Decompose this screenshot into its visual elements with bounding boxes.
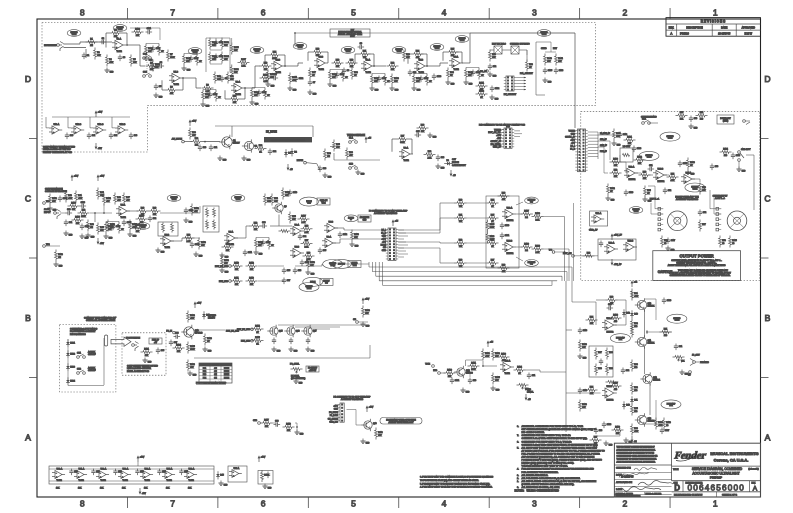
svg-text:AF_MUTE: AF_MUTE	[172, 137, 183, 140]
ground buffer	[220, 481, 222, 484]
svg-text:R159: R159	[310, 262, 315, 264]
fender logo	[673, 451, 708, 462]
svg-text:COMPONENTS WITHIN DOTTED: COMPONENTS WITHIN DOTTED	[43, 147, 75, 149]
svg-text:FS_CTRL: FS_CTRL	[290, 364, 300, 366]
svg-text:PCB ASSEMBLY FOR DIMENSIONS.: PCB ASSEMBLY FOR DIMENSIONS.	[522, 471, 559, 474]
wire U4-B fb	[408, 53, 412, 55]
svg-text:R21: R21	[363, 51, 366, 53]
svg-text:U1-B: U1-B	[174, 72, 179, 74]
op-amp U8-A	[293, 226, 301, 235]
capacitor C6	[221, 76, 223, 79]
ground U6-B	[157, 248, 159, 251]
resistor R66	[487, 242, 490, 244]
resistor R45	[97, 223, 99, 226]
capacitor C121	[451, 378, 453, 381]
switch SW1	[77, 356, 80, 359]
svg-text:R86: R86	[634, 364, 637, 366]
svg-text:6: 6	[261, 8, 266, 18]
capacitor C8	[343, 68, 345, 71]
svg-text:R167: R167	[613, 383, 618, 385]
svg-text:R195: R195	[490, 224, 495, 226]
oval shielded 9	[455, 36, 469, 43]
op-amp U10-D display buffer	[118, 126, 125, 134]
svg-text:R41: R41	[78, 195, 81, 197]
svg-text:U10-A: U10-A	[54, 123, 60, 126]
oval shielded trace 2	[113, 25, 127, 32]
svg-text:LED4: LED4	[70, 381, 75, 383]
svg-text:TRANSMITTED TO OTHERS WITHOUT: TRANSMITTED TO OTHERS WITHOUT AUTHORIZ-	[617, 457, 658, 460]
svg-text:D15: D15	[220, 475, 223, 477]
svg-text:R25: R25	[451, 49, 454, 51]
op-amp U3-A	[402, 149, 410, 158]
svg-text:R112: R112	[249, 263, 253, 265]
svg-text:R63: R63	[459, 260, 462, 262]
capacitor C95 buffer	[181, 469, 183, 472]
oval shielded 7	[392, 47, 406, 54]
svg-text:C106: C106	[559, 70, 563, 72]
svg-text:TL072: TL072	[319, 69, 324, 71]
net stub bus	[356, 321, 359, 324]
svg-text:R65: R65	[491, 215, 494, 217]
capacitor C22	[269, 149, 271, 152]
svg-text:TL072: TL072	[505, 373, 510, 375]
svg-text:U9-B: U9-B	[295, 247, 300, 249]
resistor R49	[149, 210, 152, 212]
power +15V display rail	[95, 113, 97, 117]
svg-text:R5: R5	[133, 59, 135, 61]
resistor R24 fb	[412, 53, 415, 55]
svg-text:LINE LOCATED ON REAR: LINE LOCATED ON REAR	[127, 367, 152, 370]
svg-text:PA_R: PA_R	[381, 231, 386, 234]
resistor R38	[417, 127, 420, 129]
resistor R155	[282, 188, 284, 191]
connector P3	[388, 228, 396, 260]
capacitor C32	[149, 216, 151, 219]
table mute states	[199, 363, 232, 383]
svg-text:CONDITIONS FOR TESTPOINTS TP13: CONDITIONS FOR TESTPOINTS TP13, TP15-16:	[522, 435, 572, 437]
op-amp U10-A display buffer	[52, 126, 59, 134]
resistor R144	[555, 54, 557, 57]
wire spk feed	[655, 208, 663, 210]
resistor R160	[55, 250, 57, 253]
resistor R78	[661, 236, 663, 239]
capacitor C102	[295, 76, 297, 79]
svg-text:R79: R79	[722, 240, 725, 242]
svg-text:C102: C102	[299, 78, 303, 80]
oval phase	[303, 277, 323, 286]
resistor R71	[696, 115, 699, 117]
capacitor C87	[170, 340, 172, 343]
svg-text:220K: 220K	[490, 227, 495, 229]
svg-text:C7: C7	[313, 82, 315, 84]
svg-text:7: 7	[170, 8, 175, 18]
svg-text:U37-A: U37-A	[234, 467, 240, 470]
svg-text:R40: R40	[68, 195, 71, 197]
oval shielded c1	[167, 195, 181, 202]
svg-text:R73: R73	[643, 172, 646, 174]
oval balanced out 1	[525, 197, 539, 204]
diode D11	[631, 396, 633, 399]
capacitor C60 fb	[607, 307, 610, 309]
resistor network box U6	[158, 222, 178, 236]
svg-text:U3-A: U3-A	[404, 147, 409, 150]
resistor R65	[487, 217, 490, 219]
svg-text:R173: R173	[71, 203, 76, 205]
svg-text:Q18: Q18	[373, 423, 377, 425]
svg-text:TITLE: TITLE	[673, 469, 679, 471]
rect label cold ch	[317, 198, 330, 205]
diode D15	[217, 471, 219, 474]
svg-text:ALL TESTPOINT VOLTAGES READ TO: ALL TESTPOINT VOLTAGES READ TO GROUND WI…	[522, 446, 598, 449]
svg-text:SCHEMATIC: 2-BUTTON DG: SCHEMATIC: 2-BUTTON DG	[70, 328, 98, 331]
capacitor C5	[155, 84, 157, 87]
net label tp2	[43, 245, 46, 248]
capacitor C35	[319, 248, 321, 251]
svg-text:R30: R30	[192, 132, 195, 134]
svg-text:R26: R26	[450, 72, 453, 74]
svg-text:R72: R72	[614, 170, 617, 172]
wire U5-A fb	[443, 51, 447, 53]
svg-text:2: 2	[622, 499, 627, 509]
resistor R176	[107, 220, 109, 223]
ground f7	[221, 268, 223, 271]
resistor R104	[514, 369, 517, 371]
wire U26-A out	[516, 213, 522, 215]
ground turbo fb	[429, 133, 431, 136]
svg-text:1: 1	[713, 8, 718, 18]
svg-text:R58: R58	[307, 253, 310, 255]
resistor R75	[644, 186, 646, 189]
balanced cluster frame	[486, 196, 519, 268]
svg-text:R42: R42	[82, 210, 85, 212]
rounded label main	[380, 418, 422, 425]
op-amp U26-B	[505, 242, 513, 251]
svg-text:TUNER: TUNER	[568, 131, 575, 133]
wire P4 runs	[598, 134, 614, 136]
wire pwr bottom	[596, 435, 620, 437]
power -15V display rail	[95, 143, 97, 147]
resistor R197	[521, 213, 524, 215]
svg-text:+24: +24	[634, 282, 637, 284]
svg-text:R76: R76	[702, 187, 705, 189]
svg-text:R115: R115	[255, 337, 259, 339]
wire P4 fan right	[588, 131, 598, 133]
fet Q17	[304, 327, 312, 335]
wire J1 to U1	[64, 43, 81, 45]
resistor R54	[271, 194, 273, 197]
svg-text:150: 150	[634, 326, 637, 328]
svg-text:ENGR: C. MILLER: ENGR: C. MILLER	[646, 493, 662, 495]
potentiometer VR1 phones	[673, 356, 676, 358]
svg-text:4. FOR TESTPOINTS TP14 AND TP1: 4. FOR TESTPOINTS TP14 AND TP15 OPERATE …	[420, 486, 493, 489]
svg-text:C52: C52	[668, 190, 671, 192]
svg-text:U4-B: U4-B	[419, 60, 424, 62]
ground mic1	[462, 388, 464, 391]
wire U8 to P3	[335, 227, 344, 229]
svg-text:R94: R94	[590, 387, 593, 389]
potentiometer VR3	[291, 368, 294, 370]
oval shielded p2	[639, 151, 659, 160]
op-amp U24-B	[605, 388, 614, 398]
resistor R152	[191, 204, 193, 207]
svg-text:R4: R4	[109, 59, 111, 61]
ground f1	[289, 86, 291, 89]
wire P3 fan to resistors	[398, 229, 440, 231]
resistor R116	[375, 428, 377, 431]
diode LED1	[67, 339, 69, 342]
svg-text:PANEL ASSEMBLY PCB: PANEL ASSEMBLY PCB	[127, 370, 150, 373]
capacitor C109	[191, 242, 193, 245]
svg-text:+15V: +15V	[365, 299, 370, 301]
resistor R198	[532, 216, 535, 218]
net node CT2	[689, 371, 692, 374]
svg-text:R174: R174	[106, 198, 111, 200]
svg-text:10: 10	[722, 243, 724, 245]
svg-text:C110: C110	[293, 192, 297, 194]
buffer box 3	[258, 471, 273, 485]
svg-text:100K: 100K	[170, 57, 175, 59]
svg-text:C109: C109	[195, 244, 199, 246]
svg-text:+15: +15	[395, 221, 398, 223]
wire cchain more	[60, 212, 66, 214]
resistor R162	[634, 159, 637, 161]
ground f13	[667, 246, 669, 249]
svg-text:+15V: +15V	[100, 176, 105, 178]
svg-text:R165: R165	[732, 240, 737, 242]
ground f12	[687, 170, 689, 173]
ground mute	[324, 173, 326, 176]
wire U3-B fb	[308, 51, 312, 53]
svg-text:U23-B: U23-B	[628, 241, 634, 243]
svg-text:R179: R179	[615, 427, 620, 429]
resistor R195	[487, 220, 489, 223]
svg-text:CONNECT WITH STANDARD 1/4": CONNECT WITH STANDARD 1/4"	[84, 317, 116, 320]
svg-text:ADDITIONAL CONDITIONS FOR TEST: ADDITIONAL CONDITIONS FOR TESTPOINTS TP9…	[522, 425, 584, 428]
svg-text:MUTE: MUTE	[224, 368, 230, 370]
capacitor C7	[309, 80, 311, 83]
resistor R7	[167, 50, 169, 53]
op-amp U21-A	[684, 174, 692, 183]
resistor R156	[221, 256, 223, 259]
stage parts near Q3	[255, 238, 257, 241]
svg-text:5: 5	[351, 8, 356, 18]
resistor R35	[333, 140, 335, 143]
svg-text:C70: C70	[473, 380, 476, 382]
svg-text:SEND: SEND	[541, 48, 547, 50]
ground f4	[544, 78, 546, 81]
svg-text:GND: GND	[571, 134, 576, 136]
svg-text:R198: R198	[535, 213, 540, 215]
svg-text:TP8: TP8	[549, 250, 552, 252]
svg-text:Q15: Q15	[279, 331, 283, 333]
svg-text:R164: R164	[723, 149, 728, 151]
svg-text:+15V: +15V	[140, 457, 145, 459]
wire U1 feedback	[106, 32, 110, 34]
svg-text:R205: R205	[234, 47, 239, 49]
jack J5 power out	[743, 120, 746, 123]
wire long mute	[194, 357, 370, 359]
svg-text:VOLTAGE READINGS MAY VARY UP T: VOLTAGE READINGS MAY VARY UP TO 20%.	[522, 465, 569, 468]
svg-text:10: 10	[664, 243, 666, 245]
ground Q2	[243, 156, 245, 159]
svg-text:TL072: TL072	[366, 72, 371, 74]
svg-text:TL072: TL072	[236, 94, 241, 96]
svg-text:ALL UNPOLARIZED CAPACITORS IN: ALL UNPOLARIZED CAPACITORS IN μF, 50V OR…	[522, 480, 597, 483]
capacitor C34	[299, 234, 301, 237]
capacitor C120	[663, 298, 665, 301]
capacitor C90 buffer	[71, 469, 73, 472]
svg-text:LEFT 1 +/-: LEFT 1 +/-	[650, 199, 660, 201]
op-amp U5-A	[452, 58, 460, 67]
svg-text:FS3: FS3	[203, 374, 206, 376]
wire box links	[619, 155, 621, 162]
capacitor C94 buffer	[159, 469, 161, 472]
svg-text:U7-A: U7-A	[229, 231, 234, 234]
resistor R74	[667, 176, 670, 178]
svg-text:R166: R166	[613, 315, 618, 317]
resistor R158	[351, 230, 353, 233]
svg-text:D11: D11	[634, 400, 637, 402]
oval shielded 10	[537, 30, 551, 37]
svg-text:C: C	[25, 193, 31, 203]
capacitor C125	[123, 220, 125, 223]
svg-text:ALRIGHT MUTE WIRE ASSY: ALRIGHT MUTE WIRE ASSY	[389, 421, 415, 424]
svg-text:C40: C40	[70, 135, 73, 137]
svg-text:R32: R32	[259, 145, 262, 147]
ground Q1	[219, 156, 221, 159]
resistor R1	[86, 41, 89, 43]
svg-text:R90: R90	[609, 368, 612, 370]
resistor R10	[214, 72, 216, 75]
switch S2-A stereo	[642, 122, 645, 125]
svg-text:C20: C20	[203, 147, 206, 149]
svg-text:C/STAT_AF: C/STAT_AF	[565, 136, 576, 139]
power -15 buffers	[139, 488, 141, 492]
svg-text:ON/OFF: ON/OFF	[88, 370, 96, 372]
resistor R200	[532, 248, 535, 250]
resistor R44	[97, 188, 99, 191]
stage parts near U6A	[105, 222, 107, 225]
capacitor C61	[675, 344, 677, 347]
svg-text:HOT_FX_CH0: HOT_FX_CH0	[237, 329, 251, 331]
svg-text:CONFIDENCE AND SHALL NOT BE DI: CONFIDENCE AND SHALL NOT BE DISCLOSED OR	[617, 454, 659, 457]
svg-text:C103: C103	[437, 76, 441, 78]
diode LED2	[67, 350, 69, 353]
svg-text:R113: R113	[249, 278, 253, 280]
ground U2-B bias	[267, 82, 269, 85]
svg-text:-15: -15	[453, 175, 456, 177]
transistor Q13	[637, 415, 646, 424]
svg-text:NE5532: NE5532	[507, 253, 514, 255]
resistor R180	[655, 418, 657, 421]
svg-text:C21: C21	[214, 147, 217, 149]
resistor R178	[136, 218, 139, 220]
capacitor C105	[544, 68, 546, 71]
svg-text:R114: R114	[255, 326, 259, 328]
resistor R94	[586, 389, 589, 391]
svg-text:R104: R104	[517, 367, 522, 369]
resistor R43	[87, 220, 89, 223]
capacitor C128	[633, 146, 635, 149]
svg-text:MUTE: MUTE	[224, 377, 230, 379]
oval shielded c3	[231, 195, 245, 202]
wire fet bus	[278, 324, 369, 326]
wire footswitch	[67, 339, 69, 342]
svg-text:ON/OFF: ON/OFF	[88, 354, 96, 356]
svg-text:FX_SELECT: FX_SELECT	[504, 94, 517, 96]
capacitor C20	[199, 145, 201, 148]
resistor R63	[455, 262, 458, 264]
twin opamp cluster	[598, 239, 636, 260]
ground f6	[195, 252, 197, 255]
size and drawing number row	[682, 481, 684, 492]
resistor R22	[387, 65, 390, 67]
wire top bus left	[295, 32, 470, 34]
wire to hot cluster	[279, 225, 292, 227]
resistor R62	[455, 242, 458, 244]
resistor R40	[65, 191, 67, 194]
zone tick marks	[126, 8, 128, 19]
power +15 turbo	[365, 139, 367, 143]
svg-text:R55: R55	[292, 216, 295, 218]
svg-text:C8: C8	[347, 70, 349, 72]
fet Q15	[270, 327, 278, 335]
svg-text:U10-B: U10-B	[76, 124, 82, 126]
resistor R111	[231, 280, 234, 282]
svg-text:TUNER: TUNER	[494, 129, 501, 131]
svg-text:+15V: +15V	[192, 121, 197, 123]
svg-text:C130: C130	[505, 225, 509, 227]
svg-text:C34: C34	[303, 236, 306, 238]
svg-text:+15V_AF: +15V_AF	[614, 234, 623, 237]
svg-text:R64: R64	[491, 200, 494, 202]
capacitor C104	[491, 86, 493, 89]
resistor R80	[583, 255, 586, 257]
svg-text:R7: R7	[170, 54, 172, 56]
op-amp U10-B display buffer	[74, 126, 81, 134]
resistor R179	[612, 429, 615, 431]
eq block frame	[206, 37, 230, 39]
svg-text:9. FOR TESTPOINT TP10 CONNECT: 9. FOR TESTPOINT TP10 CONNECT A DCFA DC …	[420, 476, 494, 479]
switch S3-B	[143, 75, 146, 78]
svg-text:R8: R8	[170, 87, 172, 89]
svg-text:DATABASE FILE: 283551924: DATABASE FILE: 283551924	[616, 495, 641, 498]
resistor R82	[631, 319, 633, 322]
svg-text:GND_AF: GND_AF	[493, 146, 502, 149]
svg-text:R121: R121	[144, 349, 149, 351]
svg-text:B: B	[25, 313, 31, 323]
resistor R208	[152, 60, 154, 63]
wire U24-A fb	[595, 302, 597, 325]
jack box FX2	[511, 46, 519, 54]
svg-text:GND LIFT: GND LIFT	[741, 149, 751, 151]
capacitor C52	[664, 188, 666, 191]
resistor R83 fb	[606, 299, 609, 301]
svg-text:C23: C23	[323, 168, 326, 170]
transistor Q11	[637, 337, 646, 346]
svg-text:C62: C62	[626, 370, 629, 372]
resistor R163	[687, 158, 689, 161]
ground g21	[81, 234, 83, 237]
wire mic out	[526, 369, 541, 371]
svg-text:R80: R80	[587, 253, 590, 255]
wire U6-B out	[171, 240, 182, 242]
svg-text:LINE LOCATED ON THE TOP: LINE LOCATED ON THE TOP	[43, 148, 72, 151]
resistor R95	[631, 404, 633, 407]
wire fan to balanced cluster	[467, 202, 487, 204]
svg-text:R122: R122	[190, 315, 195, 317]
capacitor C111	[244, 250, 246, 253]
